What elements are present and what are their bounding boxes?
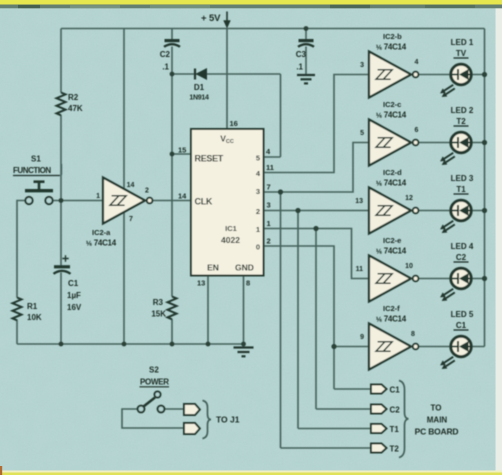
wire to IC2-f input	[334, 346, 369, 348]
ground below IC1	[234, 346, 254, 348]
svg-text:8: 8	[411, 331, 415, 338]
junction C3 at +5V rail	[304, 26, 309, 31]
svg-text:13: 13	[355, 198, 363, 205]
svg-text:47K: 47K	[68, 104, 83, 113]
wire R1 to ground rail	[16, 320, 18, 345]
wire R2 to S1 node to C1	[60, 115, 62, 266]
wire S1 left terminal to R1	[17, 201, 25, 298]
svg-text:T1: T1	[390, 425, 400, 434]
resistor R2	[57, 93, 66, 116]
svg-text:.1: .1	[162, 63, 169, 72]
wire out2 branch to connector T1	[298, 211, 371, 429]
inverter IC2-c	[369, 120, 418, 166]
svg-text:+ 5V: + 5V	[201, 13, 221, 24]
svg-text:2: 2	[267, 237, 271, 246]
wire IC2-a output to CLK pin14	[150, 200, 191, 202]
IC IC1 4022 counter	[178, 119, 274, 288]
svg-text:C2: C2	[160, 50, 171, 59]
svg-text:GND: GND	[235, 263, 254, 273]
svg-text:EN: EN	[207, 263, 219, 273]
wire left drop to R2	[60, 29, 62, 93]
svg-text:IC2-a: IC2-a	[92, 228, 111, 237]
svg-text:C1: C1	[390, 386, 401, 395]
capacitor C3	[299, 39, 314, 42]
LED1	[439, 64, 472, 99]
svg-text:PC BOARD: PC BOARD	[415, 427, 459, 437]
+5V arrow	[226, 12, 228, 22]
wire +5V to C3	[305, 29, 307, 41]
svg-text:5: 5	[360, 130, 364, 137]
capacitor C2	[165, 39, 180, 42]
svg-text:5: 5	[256, 154, 260, 163]
svg-text:LED 3: LED 3	[451, 174, 474, 183]
svg-text:MAIN: MAIN	[427, 416, 448, 425]
svg-text:POWER: POWER	[140, 378, 169, 387]
wire S1 to IC2-a input	[53, 200, 103, 202]
wire IC2-f output to LED5	[418, 346, 485, 348]
svg-text:T2: T2	[390, 445, 400, 454]
wire IC1 out3 pin7 to IC2-c input	[264, 143, 370, 193]
svg-text:IC2-b: IC2-b	[383, 32, 402, 41]
wire IC1 pin8 GND to ground symbol	[243, 276, 245, 348]
svg-text:10: 10	[405, 263, 413, 270]
wire IC1 out1 pin1 to IC2-e input	[264, 229, 370, 279]
svg-text:0: 0	[256, 243, 260, 252]
svg-text:15K: 15K	[151, 310, 166, 319]
svg-text:4022: 4022	[221, 235, 240, 245]
switch S2 POWER	[138, 366, 170, 413]
wire IC2-c output to LED2	[418, 142, 485, 144]
wire C3 to ground	[305, 47, 307, 76]
brace to J1	[203, 401, 212, 439]
junction out2 branch	[295, 208, 300, 213]
svg-text:7: 7	[129, 216, 133, 223]
wire IC2-d output to LED3	[418, 210, 485, 212]
svg-text:S1: S1	[31, 155, 41, 164]
connector C2 to main pc board	[371, 405, 387, 414]
svg-text:C1: C1	[68, 279, 79, 288]
wire S2 to J1 connector 1	[164, 408, 184, 410]
ground below C3	[297, 74, 315, 76]
svg-text:C2: C2	[390, 406, 401, 415]
wire R3 to ground rail	[171, 319, 173, 344]
wire +5V to IC1 pin16	[226, 29, 228, 130]
wire C1 to ground rail	[60, 273, 62, 345]
svg-text:T1: T1	[456, 185, 466, 194]
svg-text:C3: C3	[296, 50, 307, 59]
connector T1 to main pc board	[371, 424, 387, 433]
junction IC2-f input	[331, 344, 336, 349]
svg-text:R1: R1	[27, 302, 38, 311]
svg-text:TO J1: TO J1	[216, 415, 240, 425]
svg-text:T2: T2	[456, 117, 466, 126]
connector T2 to main pc board	[371, 444, 387, 453]
svg-text:15: 15	[178, 146, 186, 155]
svg-text:IC2-d: IC2-d	[383, 168, 402, 177]
svg-text:IC2-c: IC2-c	[383, 100, 401, 109]
inverter IC2-d	[369, 188, 418, 234]
svg-text:2: 2	[145, 188, 149, 195]
LED3	[439, 200, 472, 235]
junction EN ground	[206, 342, 211, 347]
junction reset at pin15	[170, 152, 175, 157]
junction out3 branch	[278, 189, 283, 194]
svg-text:3: 3	[267, 201, 271, 210]
junction out1 branch	[313, 226, 318, 231]
svg-text:1µF: 1µF	[67, 291, 81, 300]
junction C1 ground	[59, 342, 64, 347]
svg-text:CLK: CLK	[195, 197, 213, 207]
svg-text:RESET: RESET	[195, 154, 224, 164]
svg-text:3: 3	[256, 187, 260, 196]
svg-text:12: 12	[405, 195, 413, 202]
svg-text:7: 7	[267, 183, 271, 192]
wire to connector C1	[334, 388, 371, 390]
junction LED3 anode rail	[482, 208, 487, 213]
diode D1 1N914	[194, 69, 196, 80]
resistor R1	[13, 298, 22, 321]
wire 74C14 pin14 power / pin7 ground vertical	[123, 29, 125, 345]
capacitor C1 polarized	[54, 265, 70, 268]
svg-text:LED 2: LED 2	[451, 106, 474, 115]
svg-text:10K: 10K	[27, 313, 42, 322]
svg-text:IC2-e: IC2-e	[383, 236, 401, 245]
wire +5V top rail	[61, 28, 485, 30]
svg-text:11: 11	[266, 163, 274, 172]
svg-text:C2: C2	[456, 253, 467, 262]
svg-text:C1: C1	[456, 321, 467, 330]
brace to main pc board	[399, 381, 409, 458]
wire IC2-b output to LED1	[418, 74, 485, 76]
junction GND rail end	[241, 342, 246, 347]
connector J1 pin 1	[184, 404, 200, 415]
svg-text:FUNCTION: FUNCTION	[13, 166, 51, 175]
svg-text:S2: S2	[149, 366, 159, 375]
svg-text:4: 4	[415, 59, 419, 66]
junction R3 ground	[170, 342, 175, 347]
wire IC1 out5 pin4 up to D1	[264, 74, 281, 157]
svg-text:16: 16	[230, 119, 238, 128]
wire ground rail	[17, 343, 244, 345]
svg-text:1: 1	[267, 219, 271, 228]
svg-text:9: 9	[360, 334, 364, 341]
junction LED2 anode rail	[482, 140, 487, 145]
wire out1 branch to connector C2	[316, 229, 371, 410]
resistor R3	[168, 297, 177, 320]
wire D1 horizontal reset branch	[172, 73, 281, 75]
inverter IC2-f	[369, 324, 418, 370]
LED5	[439, 336, 472, 371]
svg-text:TV: TV	[456, 49, 467, 58]
svg-text:LED 5: LED 5	[451, 310, 474, 319]
wire reset node C2 to R3	[171, 47, 173, 297]
svg-text:13: 13	[197, 279, 205, 288]
inverter IC2-a	[103, 178, 152, 224]
svg-text:D1: D1	[194, 83, 205, 92]
connector J1 pin 2	[184, 423, 200, 434]
svg-text:LED 4: LED 4	[451, 242, 474, 251]
wire IC1 out0 pin2 to IC2-f branch	[264, 246, 335, 389]
inverter IC2-e	[369, 256, 418, 302]
svg-text:LED 1: LED 1	[451, 38, 474, 47]
junction pin7 ground	[122, 342, 127, 347]
svg-text:1N914: 1N914	[189, 95, 209, 102]
wire S2 to J1 connector 2	[122, 409, 184, 428]
junction LED1 anode rail	[482, 72, 487, 77]
svg-text:8: 8	[246, 279, 250, 288]
svg-text:16V: 16V	[67, 303, 82, 312]
svg-text:R2: R2	[68, 93, 79, 102]
wire +5V to C2	[171, 29, 173, 41]
wire IC1 out4 pin11 to IC2-b input	[264, 75, 370, 173]
svg-text:IC1: IC1	[225, 224, 237, 233]
wire out3 branch to connector T2	[281, 192, 372, 448]
svg-text:TO: TO	[431, 404, 442, 413]
svg-text:11: 11	[356, 266, 364, 273]
svg-text:1: 1	[96, 193, 100, 200]
svg-text:R3: R3	[153, 298, 164, 307]
svg-text:IC2-f: IC2-f	[383, 304, 400, 313]
connector C1 to main pc board	[371, 385, 387, 394]
wire IC1 pin13 EN to ground	[207, 276, 209, 345]
LED4	[439, 268, 472, 303]
wire IC1 pin15 reset	[172, 153, 191, 155]
switch S1 FUNCTION pushbutton	[13, 155, 62, 205]
svg-text:3: 3	[360, 62, 364, 69]
svg-text:2: 2	[256, 207, 260, 216]
junction LED4 anode rail	[482, 276, 487, 281]
svg-text:14: 14	[178, 192, 187, 201]
wire IC1 out2 pin3 to IC2-d input	[264, 210, 370, 212]
junction reset node at D1	[170, 72, 175, 77]
svg-text:.1: .1	[296, 63, 303, 72]
wire IC2-e output to LED4	[418, 278, 485, 280]
svg-text:1: 1	[256, 225, 260, 234]
LED2	[439, 132, 472, 167]
inverter IC2-b	[369, 52, 418, 98]
wire right LED anode rail	[484, 29, 486, 347]
svg-text:14: 14	[127, 182, 135, 189]
svg-text:6: 6	[415, 127, 419, 134]
junction S1 to IC2-a	[59, 198, 64, 203]
